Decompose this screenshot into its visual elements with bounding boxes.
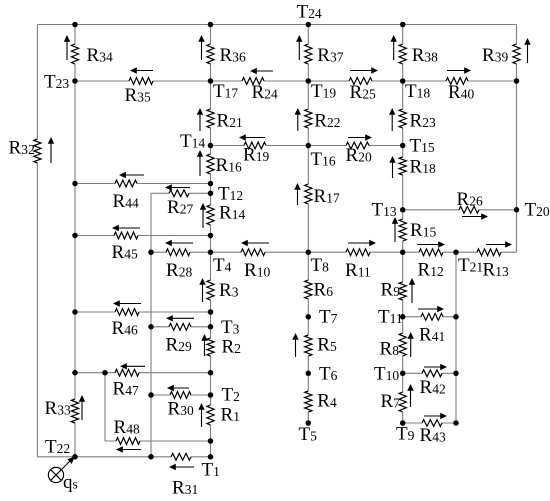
- resistor R4: [305, 391, 337, 413]
- node T14: [180, 131, 213, 152]
- resistor R23: [389, 108, 436, 132]
- resistor R14: [200, 203, 246, 229]
- resistor R6: [305, 280, 333, 301]
- wire row R29-T3: [151, 326, 211, 328]
- resistor R32: [9, 137, 55, 163]
- wire row R44: [75, 183, 211, 185]
- resistor R47: [113, 363, 146, 399]
- junction R47 branch: [102, 370, 108, 376]
- node T19: [306, 78, 337, 102]
- node T3: [208, 317, 240, 338]
- junction top of R34: [72, 22, 78, 28]
- resistor R7: [381, 384, 414, 412]
- junction R42 right: [453, 371, 459, 377]
- node T17: [208, 78, 239, 102]
- resistor R8: [380, 332, 414, 360]
- wire row R30-T2: [151, 394, 211, 396]
- resistor R12: [417, 241, 445, 280]
- node T5: [299, 420, 318, 445]
- junction R40 right: [514, 78, 520, 84]
- resistor R46: [112, 300, 142, 339]
- junction R45 right: [208, 233, 214, 239]
- resistor R38: [391, 35, 439, 66]
- node T7: [306, 307, 338, 328]
- node T15: [400, 136, 435, 157]
- wire row R47: [75, 372, 211, 374]
- node T12: [208, 184, 243, 205]
- resistor R44: [113, 172, 145, 212]
- node T23: [44, 72, 78, 93]
- junction R44 right: [208, 181, 214, 187]
- resistor R1: [198, 403, 240, 427]
- junction R46 left: [72, 309, 78, 315]
- node T21: [453, 249, 483, 276]
- resistor R3: [199, 278, 238, 302]
- resistor R45: [112, 225, 141, 263]
- resistor R20: [346, 134, 373, 166]
- resistor R21: [197, 108, 243, 132]
- junction R28 left: [148, 249, 154, 255]
- wire row R45: [75, 235, 211, 237]
- junction R29 left: [148, 324, 154, 330]
- wire row R27-T12: [151, 192, 211, 194]
- junction R46 right: [208, 309, 214, 315]
- resistor R16: [197, 150, 242, 176]
- resistor R25: [349, 67, 378, 103]
- junction R44 left: [72, 181, 78, 187]
- resistor R10: [241, 240, 270, 281]
- node T20: [514, 200, 550, 221]
- wire column T21-R43: [455, 252, 457, 423]
- wire row T13-T20: [403, 209, 517, 211]
- node T4: [208, 249, 232, 276]
- wire column T17-T1: [210, 25, 212, 457]
- resistor R43: [420, 413, 448, 446]
- resistor R11: [345, 240, 376, 281]
- node T18: [400, 78, 430, 102]
- resistor R30: [167, 385, 194, 420]
- junction R41 right: [453, 314, 459, 320]
- junction R45 left: [72, 233, 78, 239]
- node T6: [306, 364, 338, 385]
- wire left edge: [36, 25, 38, 457]
- resistor R27: [165, 184, 193, 218]
- wire column T23-T22: [74, 25, 76, 457]
- wire row T14-T16-T15: [211, 145, 403, 147]
- wire stub R47-R48: [104, 373, 106, 441]
- junction R47 right: [208, 370, 214, 376]
- heat source qs: [48, 457, 77, 493]
- resistor R36: [198, 35, 246, 66]
- node T2: [208, 385, 240, 406]
- wire top bus: [37, 24, 516, 26]
- junction R47 left: [72, 370, 78, 376]
- wire row R42: [403, 372, 456, 374]
- resistor R13: [477, 241, 512, 280]
- resistor R15: [392, 217, 437, 242]
- resistor R17: [294, 183, 340, 207]
- resistor R37: [296, 35, 344, 66]
- node T9: [396, 420, 415, 444]
- wire bottom bus T22-T1: [37, 456, 210, 458]
- node T10: [374, 364, 405, 385]
- resistor R35: [125, 67, 154, 106]
- node T13: [372, 200, 406, 221]
- node T24: [297, 2, 322, 28]
- wire right edge: [516, 25, 518, 253]
- node T8: [306, 249, 330, 276]
- resistor R34: [64, 35, 113, 66]
- resistor R40: [446, 67, 474, 103]
- node T1: [202, 454, 220, 480]
- resistor R42: [420, 364, 448, 398]
- node T16: [306, 143, 336, 170]
- resistor R29: [166, 315, 195, 355]
- resistor R18: [389, 156, 436, 178]
- resistor R19: [239, 134, 269, 165]
- junction R48 right: [208, 438, 214, 444]
- resistor R39: [482, 38, 531, 66]
- resistor R9: [381, 278, 416, 303]
- junction R31 left: [148, 454, 154, 460]
- node T11: [378, 307, 405, 328]
- resistor R31: [169, 453, 198, 498]
- resistor R33: [45, 395, 86, 423]
- wire row R41: [403, 316, 456, 318]
- resistor R5: [292, 333, 337, 357]
- wire row T23-T17-T19-T18: [75, 80, 517, 82]
- resistor R24: [242, 68, 278, 103]
- wire column T18-T9: [402, 25, 404, 424]
- junction top of R38: [400, 22, 406, 28]
- wire row R48: [105, 440, 211, 442]
- wire row R43: [403, 422, 456, 424]
- wire row R46: [75, 311, 211, 313]
- resistor R28: [165, 240, 193, 281]
- resistor R48: [114, 417, 142, 453]
- resistor R22: [295, 108, 341, 132]
- junction R30 left: [148, 392, 154, 398]
- resistor R2: [201, 334, 241, 358]
- resistor R26: [457, 189, 489, 220]
- junction R43 right: [453, 420, 459, 426]
- wire column R27 branch: [150, 193, 152, 457]
- wire column T19-T5: [307, 25, 309, 424]
- junction top of R36: [208, 22, 214, 28]
- node T22: [45, 437, 78, 460]
- junction R11 right: [400, 249, 406, 255]
- wire middle bus T4-T8-T21: [151, 251, 517, 253]
- resistor R41: [418, 306, 445, 346]
